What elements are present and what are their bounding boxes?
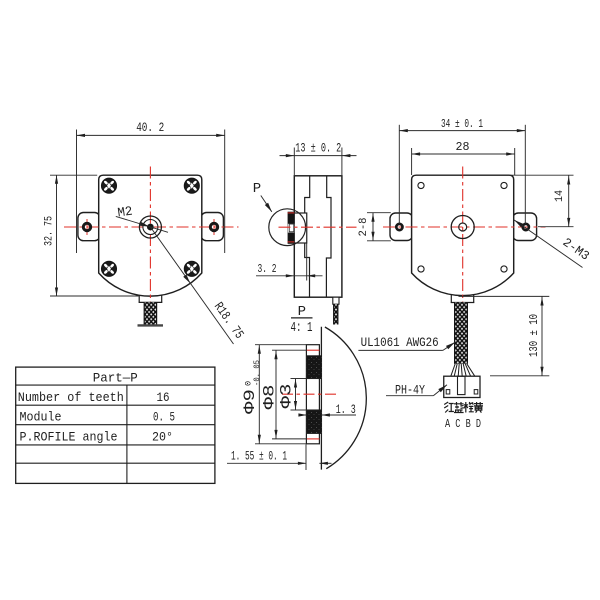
svg-text:34 ± 0. 1: 34 ± 0. 1 — [441, 118, 483, 131]
svg-text:Number of teeth: Number of teeth — [18, 390, 124, 405]
front view horizontal centerline — [64, 226, 239, 228]
detail pitch line upper — [307, 349, 320, 351]
back view left mounting hole 2-M3 — [396, 224, 402, 230]
screw top-right — [184, 178, 199, 193]
svg-text:A C B D: A C B D — [445, 418, 481, 431]
back view corner hole bottom-left — [418, 266, 424, 272]
svg-text:1. 3: 1. 3 — [336, 403, 356, 417]
svg-text:40. 2: 40. 2 — [136, 121, 164, 135]
front shaft circles — [139, 216, 161, 238]
detail red centerline — [282, 393, 338, 395]
dimension 13 ±0.2 — [293, 148, 295, 176]
side cable braid — [334, 304, 338, 324]
front view left ear hole — [86, 219, 88, 235]
dimension 32.75 — [50, 174, 97, 176]
side view inner contour left — [305, 176, 310, 297]
side view outer body — [294, 176, 342, 297]
back view corner hole bottom-right — [501, 266, 507, 272]
dimension 40.2 — [76, 130, 78, 254]
wire colors text 红蓝橙黄 — [444, 402, 454, 413]
detail gear rim section upper — [307, 355, 322, 378]
svg-text:28: 28 — [456, 141, 470, 154]
back cable boss — [450, 295, 452, 303]
back view corner hole top-left — [418, 182, 424, 188]
side view red centerline — [279, 226, 357, 228]
front view right mounting ear — [201, 213, 223, 241]
svg-text:Φ3: Φ3 — [278, 384, 296, 409]
svg-text:Φ9: Φ9 — [241, 389, 259, 414]
front cable break bar — [138, 324, 164, 326]
svg-text:1. 55 ± 0. 1: 1. 55 ± 0. 1 — [231, 449, 287, 463]
back cable braid — [455, 303, 468, 364]
dimension Φ9 0/-0.05 — [255, 344, 306, 346]
back view left mounting ear — [390, 213, 413, 241]
back view center boss circles — [451, 216, 474, 239]
front view motor body outline — [99, 175, 202, 296]
svg-text:Part—P: Part—P — [93, 370, 138, 385]
detail callout circle P — [269, 209, 306, 246]
svg-text:P: P — [253, 181, 261, 197]
back view right mounting ear — [513, 213, 537, 241]
svg-text:3. 2: 3. 2 — [258, 262, 277, 276]
front view left mounting ear — [78, 213, 100, 241]
side view gear hub — [294, 213, 306, 243]
detail gear rim section lower — [307, 410, 322, 434]
side view inner contour right — [326, 176, 331, 297]
svg-text:14: 14 — [554, 190, 566, 202]
svg-text:2-8: 2-8 — [358, 218, 370, 237]
dimension 2-8 — [367, 212, 391, 214]
svg-text:Φ8: Φ8 — [261, 385, 279, 410]
dimension 34 ±0.1 — [398, 125, 400, 224]
svg-text:M2: M2 — [117, 204, 134, 221]
side view pinion gear teeth — [288, 212, 295, 244]
svg-text:0. 5: 0. 5 — [153, 411, 175, 425]
screw top-left — [102, 178, 117, 193]
front view vertical centerline — [149, 167, 151, 304]
svg-text:P.ROFILE angle: P.ROFILE angle — [20, 429, 118, 444]
dimension 1.3 — [299, 414, 307, 416]
table Part-P grid — [16, 367, 215, 483]
back view corner hole top-right — [501, 182, 507, 188]
connector PH-4Y housing — [444, 376, 480, 397]
detail view boundary arc — [325, 327, 366, 469]
front view right ear hole — [213, 219, 215, 235]
label R18.75 — [150, 227, 233, 344]
dimension 28 — [411, 148, 413, 175]
svg-text:-0. 05: -0. 05 — [252, 360, 262, 386]
screw bottom-left — [102, 261, 117, 276]
front cable boss — [138, 295, 140, 302]
svg-text:16: 16 — [157, 391, 170, 405]
svg-text:130 ± 10: 130 ± 10 — [528, 314, 541, 357]
dimension 3.2 — [306, 244, 308, 281]
front cable braid — [144, 302, 156, 324]
back view horizontal centerline — [383, 226, 546, 228]
connector lead wires — [451, 364, 455, 376]
dimension 14 — [510, 174, 574, 176]
detail view gear face line — [320, 327, 322, 470]
back view vertical centerline — [462, 167, 464, 303]
svg-text:Module: Module — [20, 410, 62, 425]
dimension Φ8 — [272, 349, 307, 351]
svg-text:13 ± 0. 2: 13 ± 0. 2 — [295, 141, 341, 156]
label M2 — [117, 204, 134, 221]
detail gear bore lines — [306, 378, 321, 380]
side cable neck — [333, 297, 339, 304]
back view motor body outline — [412, 175, 514, 295]
dimension 130 ±10 — [459, 295, 550, 297]
label 2-M3 — [514, 220, 582, 268]
detail pitch line lower — [307, 438, 320, 440]
svg-text:4: 1: 4: 1 — [291, 321, 313, 336]
svg-text:32. 75: 32. 75 — [43, 216, 55, 246]
dimension Φ3 — [291, 378, 307, 380]
detail gear tooth strip outline — [306, 345, 319, 444]
back view right mounting hole 2-M3 — [523, 224, 529, 230]
svg-text:20°: 20° — [152, 430, 173, 444]
svg-text:UL1061 AWG26: UL1061 AWG26 — [361, 335, 439, 350]
screw bottom-right — [184, 261, 199, 276]
